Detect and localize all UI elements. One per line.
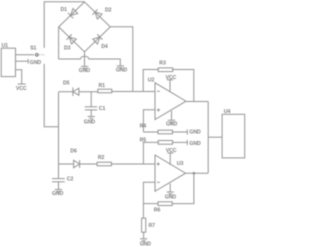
component U1	[1, 48, 15, 76]
wire U3 output	[186, 172, 209, 174]
svg-text:U3: U3	[177, 161, 184, 167]
wire to R6	[143, 203, 158, 205]
wire U2 output	[186, 101, 208, 103]
diode D3	[67, 34, 77, 44]
wire R5 to ground flag	[173, 141, 188, 143]
svg-text:R3: R3	[159, 61, 166, 67]
wire to R4	[143, 131, 158, 133]
resistor R6	[158, 202, 172, 206]
node junction at U3 output	[193, 172, 195, 174]
ground GND below R7	[140, 239, 147, 243]
svg-text:GND: GND	[116, 67, 128, 73]
wire gnd-label net jog down left side	[44, 64, 58, 127]
wire U2 noninverting input	[143, 110, 155, 132]
resistor R7	[142, 218, 146, 232]
svg-text:GND: GND	[189, 130, 201, 136]
wire R3 to U2 output	[173, 70, 194, 102]
ground GND below U3	[169, 184, 171, 192]
wire U1 pin1	[16, 54, 35, 56]
svg-text:GND: GND	[165, 194, 177, 200]
ground GND below C1	[88, 117, 95, 121]
diode bridge diamond wire	[59, 2, 111, 52]
svg-text:GND: GND	[84, 119, 96, 125]
wire U3 inverting input	[143, 182, 155, 218]
svg-text:D5: D5	[63, 80, 70, 86]
power VCC at U2	[167, 80, 173, 92]
wire bridge left vertex down	[58, 27, 60, 59]
svg-text:D2: D2	[105, 8, 112, 14]
ground flag GND right of R5	[186, 140, 188, 145]
ground GND below C2	[55, 190, 62, 194]
wire switch up to bridge top	[44, 2, 84, 48]
capacitor C2	[52, 179, 65, 190]
wire R4 to ground flag	[173, 131, 188, 133]
svg-text:D4: D4	[101, 44, 108, 50]
wire into D6	[59, 163, 74, 165]
svg-text:R4: R4	[140, 124, 147, 130]
wire R7 to ground	[143, 232, 145, 238]
wire output bus vertical	[207, 102, 209, 174]
ground flag GND at U1 pin2	[27, 59, 29, 64]
wire vertical to D5 and C2	[58, 92, 60, 178]
op-amp U2	[155, 83, 186, 120]
wire U1 pin2	[16, 60, 29, 62]
svg-text:D6: D6	[70, 148, 77, 154]
wire bridge bottom vertex down	[84, 52, 86, 66]
svg-text:U1: U1	[2, 43, 9, 49]
resistor R4	[158, 130, 173, 134]
wire to U4	[208, 136, 222, 138]
svg-text:GND: GND	[79, 68, 91, 74]
wire R1 to U2	[112, 91, 155, 93]
wire D5 to R1	[79, 91, 98, 93]
svg-text:S1: S1	[30, 46, 36, 52]
svg-text:VCC: VCC	[166, 75, 177, 81]
wire U1 pin3	[16, 70, 22, 84]
wire D6 to R2	[80, 163, 98, 165]
diode D2	[92, 9, 102, 19]
wire R3 feedback loop	[143, 70, 158, 92]
ground flag GND right of R4	[186, 129, 188, 134]
svg-text:C2: C2	[67, 176, 74, 182]
svg-text:R7: R7	[149, 223, 156, 229]
diode D4	[92, 34, 102, 44]
resistor R5	[158, 141, 172, 145]
svg-text:U2: U2	[148, 77, 155, 83]
svg-text:U4: U4	[224, 109, 231, 115]
svg-text:D1: D1	[61, 7, 68, 13]
wire R6 to output node	[172, 173, 194, 203]
svg-text:R2: R2	[98, 155, 105, 161]
ground GND below U2	[171, 111, 173, 120]
svg-text:VCC: VCC	[16, 86, 27, 92]
power VCC at U1	[18, 83, 26, 85]
diode D5 (cathode left)	[73, 87, 79, 96]
power VCC at U3	[168, 153, 174, 165]
resistor R3	[158, 68, 173, 72]
svg-text:GND: GND	[140, 242, 152, 247]
wire ground run with hopover	[59, 56, 121, 65]
svg-text:D3: D3	[64, 45, 71, 51]
component U4	[222, 114, 245, 158]
svg-text:GND: GND	[189, 141, 201, 147]
switch S1	[36, 54, 45, 57]
diode D1	[68, 8, 78, 18]
resistor R2	[97, 162, 111, 166]
ground GND right of bridge	[117, 66, 124, 70]
svg-text:R1: R1	[99, 83, 106, 89]
svg-text:GND: GND	[52, 191, 64, 197]
capacitor C1	[85, 92, 97, 117]
wire R2 to U3 noninverting input	[111, 163, 155, 165]
ground GND below bridge	[81, 66, 88, 70]
svg-text:GND: GND	[30, 60, 42, 66]
op-amp U3	[155, 155, 186, 191]
svg-text:C1: C1	[99, 106, 106, 112]
wire bridge right vertex to U2 inverting input	[110, 27, 133, 92]
svg-text:VCC: VCC	[166, 148, 177, 154]
svg-text:R6: R6	[154, 207, 161, 213]
svg-text:GND: GND	[166, 122, 178, 128]
diode D6 (cathode right)	[74, 160, 80, 168]
resistor R1	[98, 89, 112, 93]
wire into D5	[59, 91, 73, 93]
wire R5 left to U3 noninverting node	[143, 142, 158, 164]
